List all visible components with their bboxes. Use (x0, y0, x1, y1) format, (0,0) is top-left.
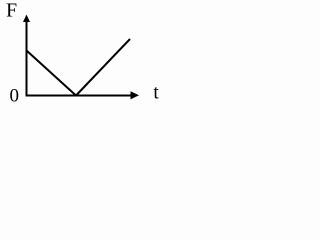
svg-text:t: t (153, 83, 159, 104)
graph line ascending segment (76, 39, 130, 96)
axis F arrowhead (23, 15, 30, 23)
graph line descending segment (27, 51, 77, 96)
axis t (horizontal) (26, 95, 132, 97)
axis t arrowhead (131, 91, 140, 99)
svg-text:F: F (6, 0, 17, 22)
axis F (vertical) (26, 21, 28, 97)
svg-text:0: 0 (10, 86, 20, 107)
